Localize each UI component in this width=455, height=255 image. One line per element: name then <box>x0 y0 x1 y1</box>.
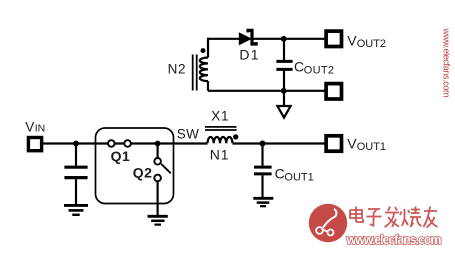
terminal VIN <box>28 138 41 151</box>
wire: N1 to VOUT1 terminal <box>233 142 327 144</box>
svg-text:OUT1: OUT1 <box>357 141 386 153</box>
svg-text:X1: X1 <box>211 108 229 123</box>
node: top rail / COUT2 junction <box>281 36 287 42</box>
svg-text:Q2: Q2 <box>133 165 153 181</box>
terminal VOUT2 <box>326 31 341 46</box>
watermark logo circle <box>309 204 347 242</box>
winding N1 of transformer X1 <box>208 137 233 143</box>
core bars of X1 <box>205 127 237 130</box>
svg-text:OUT2: OUT2 <box>304 65 335 77</box>
svg-text:www.elecfans.com: www.elecfans.com <box>442 28 452 98</box>
wire: bottom rail of second output <box>208 90 326 92</box>
terminal: second output return <box>326 84 341 99</box>
svg-text:N1: N1 <box>210 147 230 163</box>
capacitor COUT2 <box>283 39 285 60</box>
svg-text:Q1: Q1 <box>111 148 131 164</box>
winding N2 of transformer X1 <box>200 58 208 82</box>
svg-text:C: C <box>275 165 285 181</box>
wire: D1 cathode to VOUT2 terminal (top rail right) <box>254 38 327 40</box>
node: input cap junction <box>73 141 79 147</box>
烧 <box>400 207 422 228</box>
terminal VOUT1 <box>326 136 341 151</box>
wire: main rail VIN to N1 <box>42 142 208 144</box>
capacitor COUT1 <box>261 144 263 166</box>
友 <box>424 207 438 228</box>
input capacitor <box>75 144 77 166</box>
phase dot N1 <box>233 134 238 139</box>
svg-text:D1: D1 <box>239 47 259 63</box>
switch Q1 contacts <box>108 140 115 147</box>
watermark chinese characters 电子发烧友 <box>350 207 438 228</box>
ground for COUT1 <box>253 197 273 200</box>
switch Q2 <box>157 144 159 159</box>
wire: N2 top to D1 anode (top rail left) <box>208 39 240 58</box>
node: SW junction <box>155 141 161 147</box>
phase dot N2 <box>201 48 206 53</box>
ground for Q2 <box>148 215 168 218</box>
svg-text:OUT1: OUT1 <box>284 171 313 183</box>
svg-text:N2: N2 <box>168 62 187 77</box>
svg-text:www.elecfans.com: www.elecfans.com <box>346 233 442 247</box>
diode D1 (Schottky) <box>239 32 252 45</box>
svg-text:C: C <box>294 59 304 75</box>
svg-text:SW: SW <box>177 127 199 142</box>
svg-text:IN: IN <box>35 123 46 135</box>
ground (triangle) for second output <box>283 91 285 106</box>
node: COUT1 junction <box>260 141 266 147</box>
switch block outline <box>96 128 174 204</box>
core bars of N2 <box>193 55 197 91</box>
svg-text:OUT2: OUT2 <box>357 38 386 50</box>
svg-text:V: V <box>25 119 34 134</box>
node: bottom rail / ground junction <box>281 88 287 94</box>
ground for input capacitor <box>64 204 88 207</box>
电 <box>350 207 363 223</box>
wire: N2 bottom segment <box>207 81 209 91</box>
子 <box>367 209 382 226</box>
发 <box>385 207 400 228</box>
